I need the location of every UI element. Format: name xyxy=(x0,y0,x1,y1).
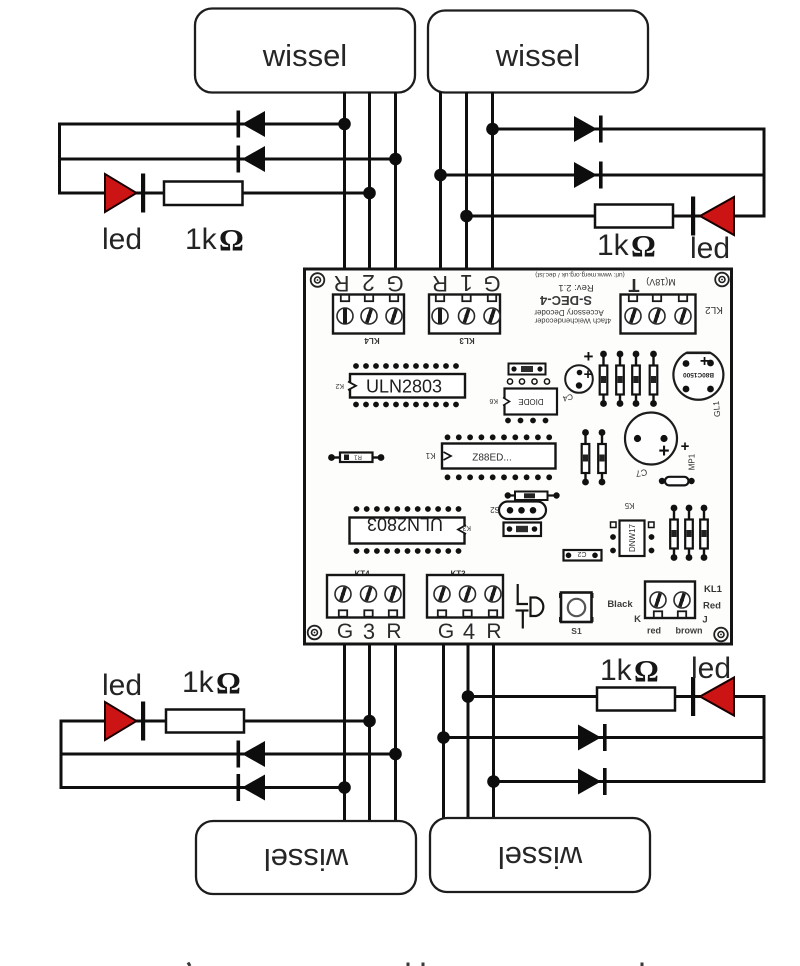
led bottom-right xyxy=(691,677,734,716)
svg-text:KL1: KL1 xyxy=(704,584,723,595)
PCB corner screw bottom-right xyxy=(714,628,728,642)
svg-text:G: G xyxy=(386,271,403,296)
resistor R4 vertical xyxy=(632,351,640,407)
wire from bottom block pin R left xyxy=(394,644,397,822)
wire from top-left box pin G xyxy=(394,92,397,270)
capacitor C3 xyxy=(509,364,546,375)
resistor 1k top-right xyxy=(595,205,673,228)
svg-text:1: 1 xyxy=(460,270,473,296)
svg-text:1k: 1k xyxy=(597,229,630,262)
terminal block KL4 top xyxy=(333,295,404,334)
svg-text:+: + xyxy=(584,347,594,366)
svg-text:led: led xyxy=(102,669,142,702)
svg-text:led: led xyxy=(102,223,142,256)
wire bottom-left 1 xyxy=(60,720,370,723)
piezo speaker icon xyxy=(516,584,544,629)
IC U4 DIODE array body xyxy=(489,389,557,415)
IC U4 pin row bottom xyxy=(505,418,548,424)
svg-text:+: + xyxy=(658,441,669,462)
svg-text:C2: C2 xyxy=(577,550,586,557)
capacitor C7 xyxy=(625,413,690,479)
junction xyxy=(338,118,351,131)
resistor R9 vertical xyxy=(685,505,693,561)
svg-text:Ω: Ω xyxy=(216,665,241,700)
resistor R6 vertical xyxy=(582,429,590,485)
wire from bottom block pin G left xyxy=(343,644,346,822)
IC U1 ULN2803 pin row top xyxy=(353,363,459,369)
IC U1 ULN2803 body xyxy=(335,374,465,398)
wire from top-left box pin R xyxy=(343,92,346,270)
svg-text:C7: C7 xyxy=(635,467,648,479)
wire bottom-left 2 xyxy=(60,753,396,756)
svg-text:K2: K2 xyxy=(335,382,344,389)
svg-text:G: G xyxy=(483,271,500,296)
terminal block KL2 xyxy=(621,295,696,334)
svg-text:KL3: KL3 xyxy=(459,336,475,345)
wire bottom-right 1 xyxy=(468,695,764,698)
svg-text:G: G xyxy=(438,620,454,643)
wire bottom-left 3 xyxy=(60,786,345,789)
diode D4 xyxy=(574,162,603,189)
capacitor C4 xyxy=(561,347,593,403)
led top-left xyxy=(105,174,145,213)
svg-text:S2: S2 xyxy=(490,505,500,514)
junction xyxy=(363,187,376,200)
wire top-left A xyxy=(58,123,345,126)
diode D6 xyxy=(237,774,266,801)
resistor R10 vertical xyxy=(700,505,708,561)
svg-text:1k: 1k xyxy=(600,654,633,687)
resistor R5 vertical xyxy=(650,351,658,407)
junction xyxy=(487,775,500,788)
svg-text:S-DEC-4: S-DEC-4 xyxy=(539,293,592,308)
svg-text:1k: 1k xyxy=(182,666,215,699)
svg-text:G: G xyxy=(337,620,353,643)
svg-text:K6: K6 xyxy=(489,397,498,404)
svg-text:1k: 1k xyxy=(185,223,218,256)
pads row xyxy=(507,379,549,384)
svg-text:Ω: Ω xyxy=(634,653,659,688)
svg-text:KL2: KL2 xyxy=(705,304,723,315)
terminal block KL3 bottom xyxy=(427,570,503,618)
junction xyxy=(389,153,402,166)
IC K1 Z88ED pin row bottom xyxy=(445,474,552,480)
junction xyxy=(437,731,450,744)
svg-text:K3: K3 xyxy=(462,524,471,531)
wire right bus top-right xyxy=(763,128,766,218)
IC K1 Z88ED body xyxy=(425,444,555,469)
wissel box bottom-left xyxy=(196,821,416,894)
resistor R3 vertical xyxy=(616,351,624,407)
svg-text:MP1: MP1 xyxy=(688,453,697,470)
PCB corner screw top-left xyxy=(311,273,325,287)
wire from top-right box pin R xyxy=(439,92,442,270)
diode D7 xyxy=(578,724,607,751)
svg-text:led: led xyxy=(691,652,731,685)
resistor 1k bottom-left xyxy=(166,710,244,733)
svg-text:led: led xyxy=(690,232,730,265)
svg-text:K1: K1 xyxy=(425,451,435,460)
svg-text:Rev: 2.1: Rev: 2.1 xyxy=(558,282,593,293)
IC K3 ULN2803 pin row bottom xyxy=(354,548,462,554)
bridge rectifier GL1 xyxy=(673,353,723,418)
IC U1 ULN2803 pin row bottom xyxy=(353,402,459,408)
svg-text:Z88ED...: Z88ED... xyxy=(472,453,511,464)
svg-text:Accessory Decoder: Accessory Decoder xyxy=(534,308,604,317)
svg-text:R: R xyxy=(432,271,448,296)
capacitor C1 xyxy=(504,523,542,537)
wire top-right B xyxy=(441,174,765,177)
diode D1 xyxy=(237,111,266,138)
wissel box bottom-right xyxy=(430,818,650,892)
junction xyxy=(460,210,473,223)
IC K3 ULN2803 pin row top xyxy=(354,506,462,512)
junction xyxy=(434,169,447,182)
led bottom-left xyxy=(105,702,145,741)
svg-text:KL4: KL4 xyxy=(364,336,380,345)
svg-text:DIODE: DIODE xyxy=(518,397,543,406)
diode pill xyxy=(659,477,695,486)
junction xyxy=(486,123,499,136)
svg-text:+: + xyxy=(681,438,690,455)
resistor R2 vertical xyxy=(600,351,608,407)
svg-text:Black: Black xyxy=(607,599,633,610)
svg-text:4: 4 xyxy=(463,619,475,644)
svg-text:2: 2 xyxy=(362,270,375,296)
svg-text:R1: R1 xyxy=(354,454,362,460)
svg-text:Red: Red xyxy=(703,601,721,612)
svg-text:R: R xyxy=(386,620,401,643)
diode D8 xyxy=(578,768,607,795)
wire from top-right box pin G xyxy=(491,92,494,270)
svg-text:GL1: GL1 xyxy=(711,400,722,417)
svg-text:+: + xyxy=(700,353,709,370)
svg-text:S1: S1 xyxy=(571,626,582,636)
label 1k ohm xyxy=(600,653,659,688)
cut-off text marks bottom xyxy=(188,963,642,966)
label 1k ohm xyxy=(182,665,241,700)
svg-text:ULN2803: ULN2803 xyxy=(366,377,442,397)
svg-text:wissel: wissel xyxy=(262,38,347,73)
svg-text:wissel: wissel xyxy=(498,840,583,875)
svg-text:R: R xyxy=(486,620,501,643)
junction xyxy=(338,781,351,794)
diode D5 xyxy=(237,741,266,768)
junction xyxy=(363,715,376,728)
resistor R1 horizontal xyxy=(328,453,384,463)
wire top-left B xyxy=(58,158,396,161)
resistor R7 vertical xyxy=(598,429,606,485)
diode D2 xyxy=(237,146,266,173)
silkscreen text block rotated xyxy=(534,271,625,326)
wire from bottom block pin 3 xyxy=(368,644,371,822)
svg-text:+: + xyxy=(584,366,593,383)
led top-right xyxy=(691,197,734,236)
svg-text:M(18V): M(18V) xyxy=(646,277,676,287)
wire from bottom block pin R right xyxy=(492,644,495,819)
IC K3 ULN2803 body flipped xyxy=(350,514,472,544)
wire from top-left box pin 2 xyxy=(368,92,371,270)
wissel box top-right xyxy=(428,11,648,93)
wire left bus top-left xyxy=(58,123,61,195)
wire top-right A xyxy=(493,128,765,131)
resistor D2 horizontal xyxy=(505,492,560,501)
PCB board outline xyxy=(305,269,732,644)
capacitor C2 xyxy=(564,550,602,561)
wire top-right C xyxy=(467,215,765,218)
resistor 1k bottom-right xyxy=(597,688,675,711)
svg-text:Ω: Ω xyxy=(631,228,656,263)
svg-text:J: J xyxy=(702,615,707,626)
terminal block KL3 top xyxy=(429,295,500,334)
wire from top-right box pin 1 xyxy=(465,92,468,270)
label 1k ohm xyxy=(185,222,244,257)
svg-text:ULN2803: ULN2803 xyxy=(367,514,443,534)
svg-text:B80C1500: B80C1500 xyxy=(683,371,714,378)
IC K1 Z88ED pin row top xyxy=(445,434,552,440)
svg-text:K5: K5 xyxy=(624,501,634,510)
diode D3 xyxy=(574,116,603,143)
wire top-left C xyxy=(58,192,370,195)
svg-text:R: R xyxy=(334,271,350,296)
svg-text:wissel: wissel xyxy=(264,842,349,877)
resistor 1k top-left xyxy=(164,182,243,206)
svg-text:DNW17: DNW17 xyxy=(628,523,637,552)
svg-text:T: T xyxy=(629,275,640,295)
wire left bus bottom-left xyxy=(60,720,63,790)
PCB corner screw top-right xyxy=(715,273,729,287)
jumper S2 pill xyxy=(490,502,546,520)
wire from bottom block pin 4 xyxy=(467,644,470,819)
label 1k ohm xyxy=(597,228,656,263)
wissel box top-left xyxy=(195,9,415,93)
svg-text:K: K xyxy=(634,614,641,625)
svg-text:red: red xyxy=(647,626,661,636)
svg-text:4fach Weichendecoder: 4fach Weichendecoder xyxy=(534,317,611,326)
wire bottom-right 3 xyxy=(494,780,765,783)
svg-text:wissel: wissel xyxy=(495,38,580,73)
terminal block KL1 xyxy=(645,582,695,619)
junction xyxy=(389,748,402,761)
svg-text:brown: brown xyxy=(676,626,703,636)
svg-text:(url: www.merg.org.uk / dec.ls: (url: www.merg.org.uk / dec.lst) xyxy=(535,271,625,278)
PCB corner screw bottom-left xyxy=(308,626,322,640)
resistor R8 vertical xyxy=(670,505,678,561)
IC K5 optocoupler xyxy=(610,501,654,556)
wire from bottom block pin G right xyxy=(442,644,445,819)
terminal block KL4 bottom xyxy=(327,570,404,618)
pushbutton S1 xyxy=(559,593,594,637)
svg-text:3: 3 xyxy=(363,619,375,644)
svg-text:Ω: Ω xyxy=(219,222,244,257)
wire right bus bottom-right xyxy=(763,695,766,783)
junction xyxy=(462,690,475,703)
wire bottom-right 2 xyxy=(444,736,765,739)
